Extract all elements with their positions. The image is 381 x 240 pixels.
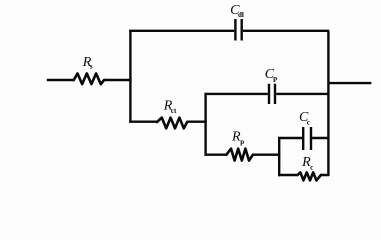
svg-text:dl: dl [238,11,244,19]
svg-text:c: c [307,118,310,126]
svg-text:p: p [240,138,244,146]
svg-text:c: c [310,163,313,171]
svg-text:R: R [301,155,311,170]
svg-text:s: s [90,63,93,71]
svg-text:ct: ct [171,107,177,115]
svg-text:R: R [231,130,241,145]
svg-text:p: p [273,75,277,83]
